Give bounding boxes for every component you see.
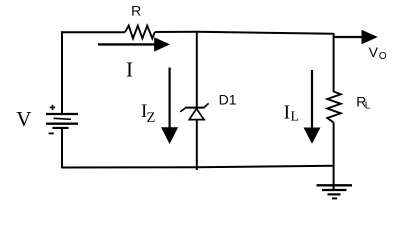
wire: middle branch, zener anode lead to bottom-rail junction — [196, 120, 198, 170]
wire: left branch, battery negative lead — [61, 128, 63, 168]
svg-text:V: V — [16, 107, 31, 131]
wire: ground stem below bottom-rail junction — [333, 165, 335, 190]
resistor R (series zigzag) — [125, 26, 155, 39]
svg-text:I: I — [284, 102, 291, 124]
svg-text:L: L — [365, 101, 371, 112]
label VO — [369, 44, 387, 62]
label IZ — [141, 101, 156, 126]
wire: middle branch, zener cathode lead from node A — [196, 32, 198, 108]
svg-text:D1: D1 — [219, 91, 237, 107]
wire: bottom rail (return path) — [62, 166, 334, 168]
svg-text:V: V — [369, 44, 379, 60]
svg-text:O: O — [379, 51, 387, 62]
wire: top rail, right segment (resistor R through node A to output corner) — [155, 32, 334, 34]
svg-text:Z: Z — [147, 110, 156, 126]
wire: left branch, battery positive lead — [61, 31, 63, 114]
zener diode D1 (cathode bar with bent ends, anode triangle below) — [180, 103, 208, 119]
wire: right branch, load lead to ground junction — [333, 123, 335, 167]
wire: top rail, left segment (input corner to resistor R) — [62, 31, 125, 33]
svg-text:L: L — [291, 109, 300, 124]
svg-text:R: R — [131, 3, 141, 19]
current arrow IZ (zener current, downward) — [161, 68, 178, 145]
label IL — [284, 102, 300, 125]
label RL — [356, 93, 370, 111]
battery V (two-cell plates with + and - polarity marks) — [46, 105, 78, 134]
current arrow I (series current through R) — [98, 37, 170, 51]
svg-text:I: I — [126, 58, 133, 82]
wire: right branch, load lead from output corner — [333, 33, 335, 92]
ground (earth symbol, four bars) — [317, 185, 353, 198]
output arrow VO (output voltage tap at node VO) — [334, 30, 378, 44]
resistor RL (load zigzag) — [327, 92, 341, 123]
current arrow IL (load current, downward) — [304, 70, 321, 144]
